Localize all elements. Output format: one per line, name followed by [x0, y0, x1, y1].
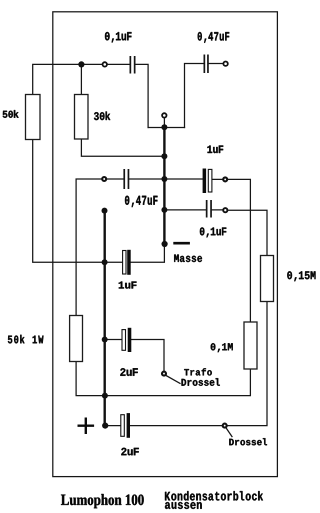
junction dot 0,1uF row start	[161, 207, 167, 213]
junction dot at 30k top	[78, 61, 84, 67]
capacitor 2uF bottom (polarized)	[121, 413, 130, 438]
label 50k	[3, 110, 19, 118]
label 50k 1W	[8, 335, 44, 344]
wire stub from antenna terminal to tie line	[163, 118, 165, 127]
label 0,47uF top right	[198, 32, 230, 43]
label 1uF mid left	[119, 282, 137, 289]
wire 50k bottom lead down to 1uF row	[33, 140, 123, 263]
label 30k	[94, 112, 110, 121]
capacitor 1uF mid left (polarized)	[123, 250, 131, 275]
terminal circle Drossel bottom	[223, 424, 227, 428]
wire 30k top lead	[80, 64, 82, 94]
capacitor 0,1uF right row	[206, 200, 212, 218]
wire pointer to Trafo Drossel label	[166, 376, 180, 384]
resistor 30k	[75, 95, 89, 140]
resistor 50k 1W	[70, 316, 83, 362]
plus polarity symbol	[78, 418, 95, 435]
wire from 50k top via node to 0,1uF cap, corner down to tie line	[33, 64, 148, 127]
junction dot Masse node	[162, 241, 168, 247]
capacitor 1uF top right (polarized)	[203, 169, 212, 194]
wire 0,1uF right row from bus to cap	[166, 209, 206, 211]
wire tie line between two cap branches	[148, 127, 184, 129]
wire bottom row from plus junction to 2uF cap	[105, 425, 121, 427]
terminal circle Trafo Drossel	[162, 372, 166, 376]
label 0,1uF top	[105, 32, 132, 43]
wire 0,47uF top-right cap right lead to terminal	[209, 63, 223, 65]
capacitor 2uF mid (polarized)	[122, 328, 131, 352]
wire bottom row to Drossel node and up to 0,15M bottom	[130, 302, 267, 426]
terminal circle 1uF right	[223, 177, 227, 181]
wire 1uF cap to terminal and down to 0,1M	[212, 179, 250, 322]
junction dot 1uF row crossing	[102, 259, 108, 265]
wire 2uF mid cap to Trafo terminal	[131, 340, 164, 371]
resistor 0,15M	[261, 256, 274, 302]
label 0,15M	[287, 271, 315, 281]
border frame of Kondensatorblock	[53, 12, 278, 477]
label 0,1M	[211, 343, 233, 352]
capacitor 0,47uF second row	[123, 169, 129, 189]
wire 1uF row right side up to Masse node	[131, 245, 165, 263]
wire pointer to Drossel label	[226, 428, 232, 436]
label Kondensatorblock	[165, 491, 263, 500]
label 2uF bottom	[121, 448, 139, 456]
wire 0,47uF row to 1uF cap	[129, 178, 202, 180]
bus wire thick vertical right (x=164.4)	[163, 128, 165, 245]
wire 50k1W bottom lead and return line to 0,1M bottom	[76, 362, 250, 396]
capacitor 0,1uF top	[130, 56, 136, 74]
label 1uF right	[207, 146, 223, 154]
label Trafo	[184, 368, 212, 375]
wire 0,47uF top-right cap left lead	[185, 64, 205, 128]
wire 2uF mid row from bus to cap	[107, 339, 122, 341]
resistor 0,1M	[244, 322, 257, 369]
junction dot 2uF mid row	[102, 337, 108, 343]
junction dot tie line	[161, 124, 167, 130]
wire 50k1W top lead up and right to 0,47uF cap row	[76, 179, 123, 316]
label Drossel bottom	[229, 438, 267, 445]
wire 30k bottom lead to bus	[81, 139, 163, 156]
label 0,1uF right	[200, 227, 226, 237]
junction dot 30k bus	[161, 153, 167, 159]
junction dot return line	[102, 393, 108, 399]
junction dot 0,47uF row crossing	[161, 176, 167, 182]
label 0,47uF second	[125, 196, 158, 207]
wire 0,1uF cap to terminal and down to 0,15M	[212, 210, 267, 256]
terminal circle antenna top of right bus	[162, 113, 166, 117]
label Drossel (Trafo)	[182, 378, 220, 386]
label Masse	[174, 255, 202, 263]
terminal circle 0,1uF right	[223, 208, 227, 212]
terminal circle 0,47uF top right	[223, 62, 227, 66]
label aussen	[165, 502, 202, 509]
terminal circle top left row	[103, 62, 107, 66]
label 2uF mid	[120, 368, 138, 376]
ground Masse bar	[173, 242, 190, 245]
bus wire thick vertical left (x=104.7)	[103, 211, 105, 426]
junction dot top of left bus	[102, 208, 108, 214]
label Lumophon 100	[61, 494, 144, 508]
junction dot bottom plus node	[102, 423, 108, 429]
capacitor 0,47uF top right	[204, 55, 209, 74]
resistor 50k	[26, 95, 41, 140]
terminal circle 0,47uF second row	[102, 177, 106, 181]
